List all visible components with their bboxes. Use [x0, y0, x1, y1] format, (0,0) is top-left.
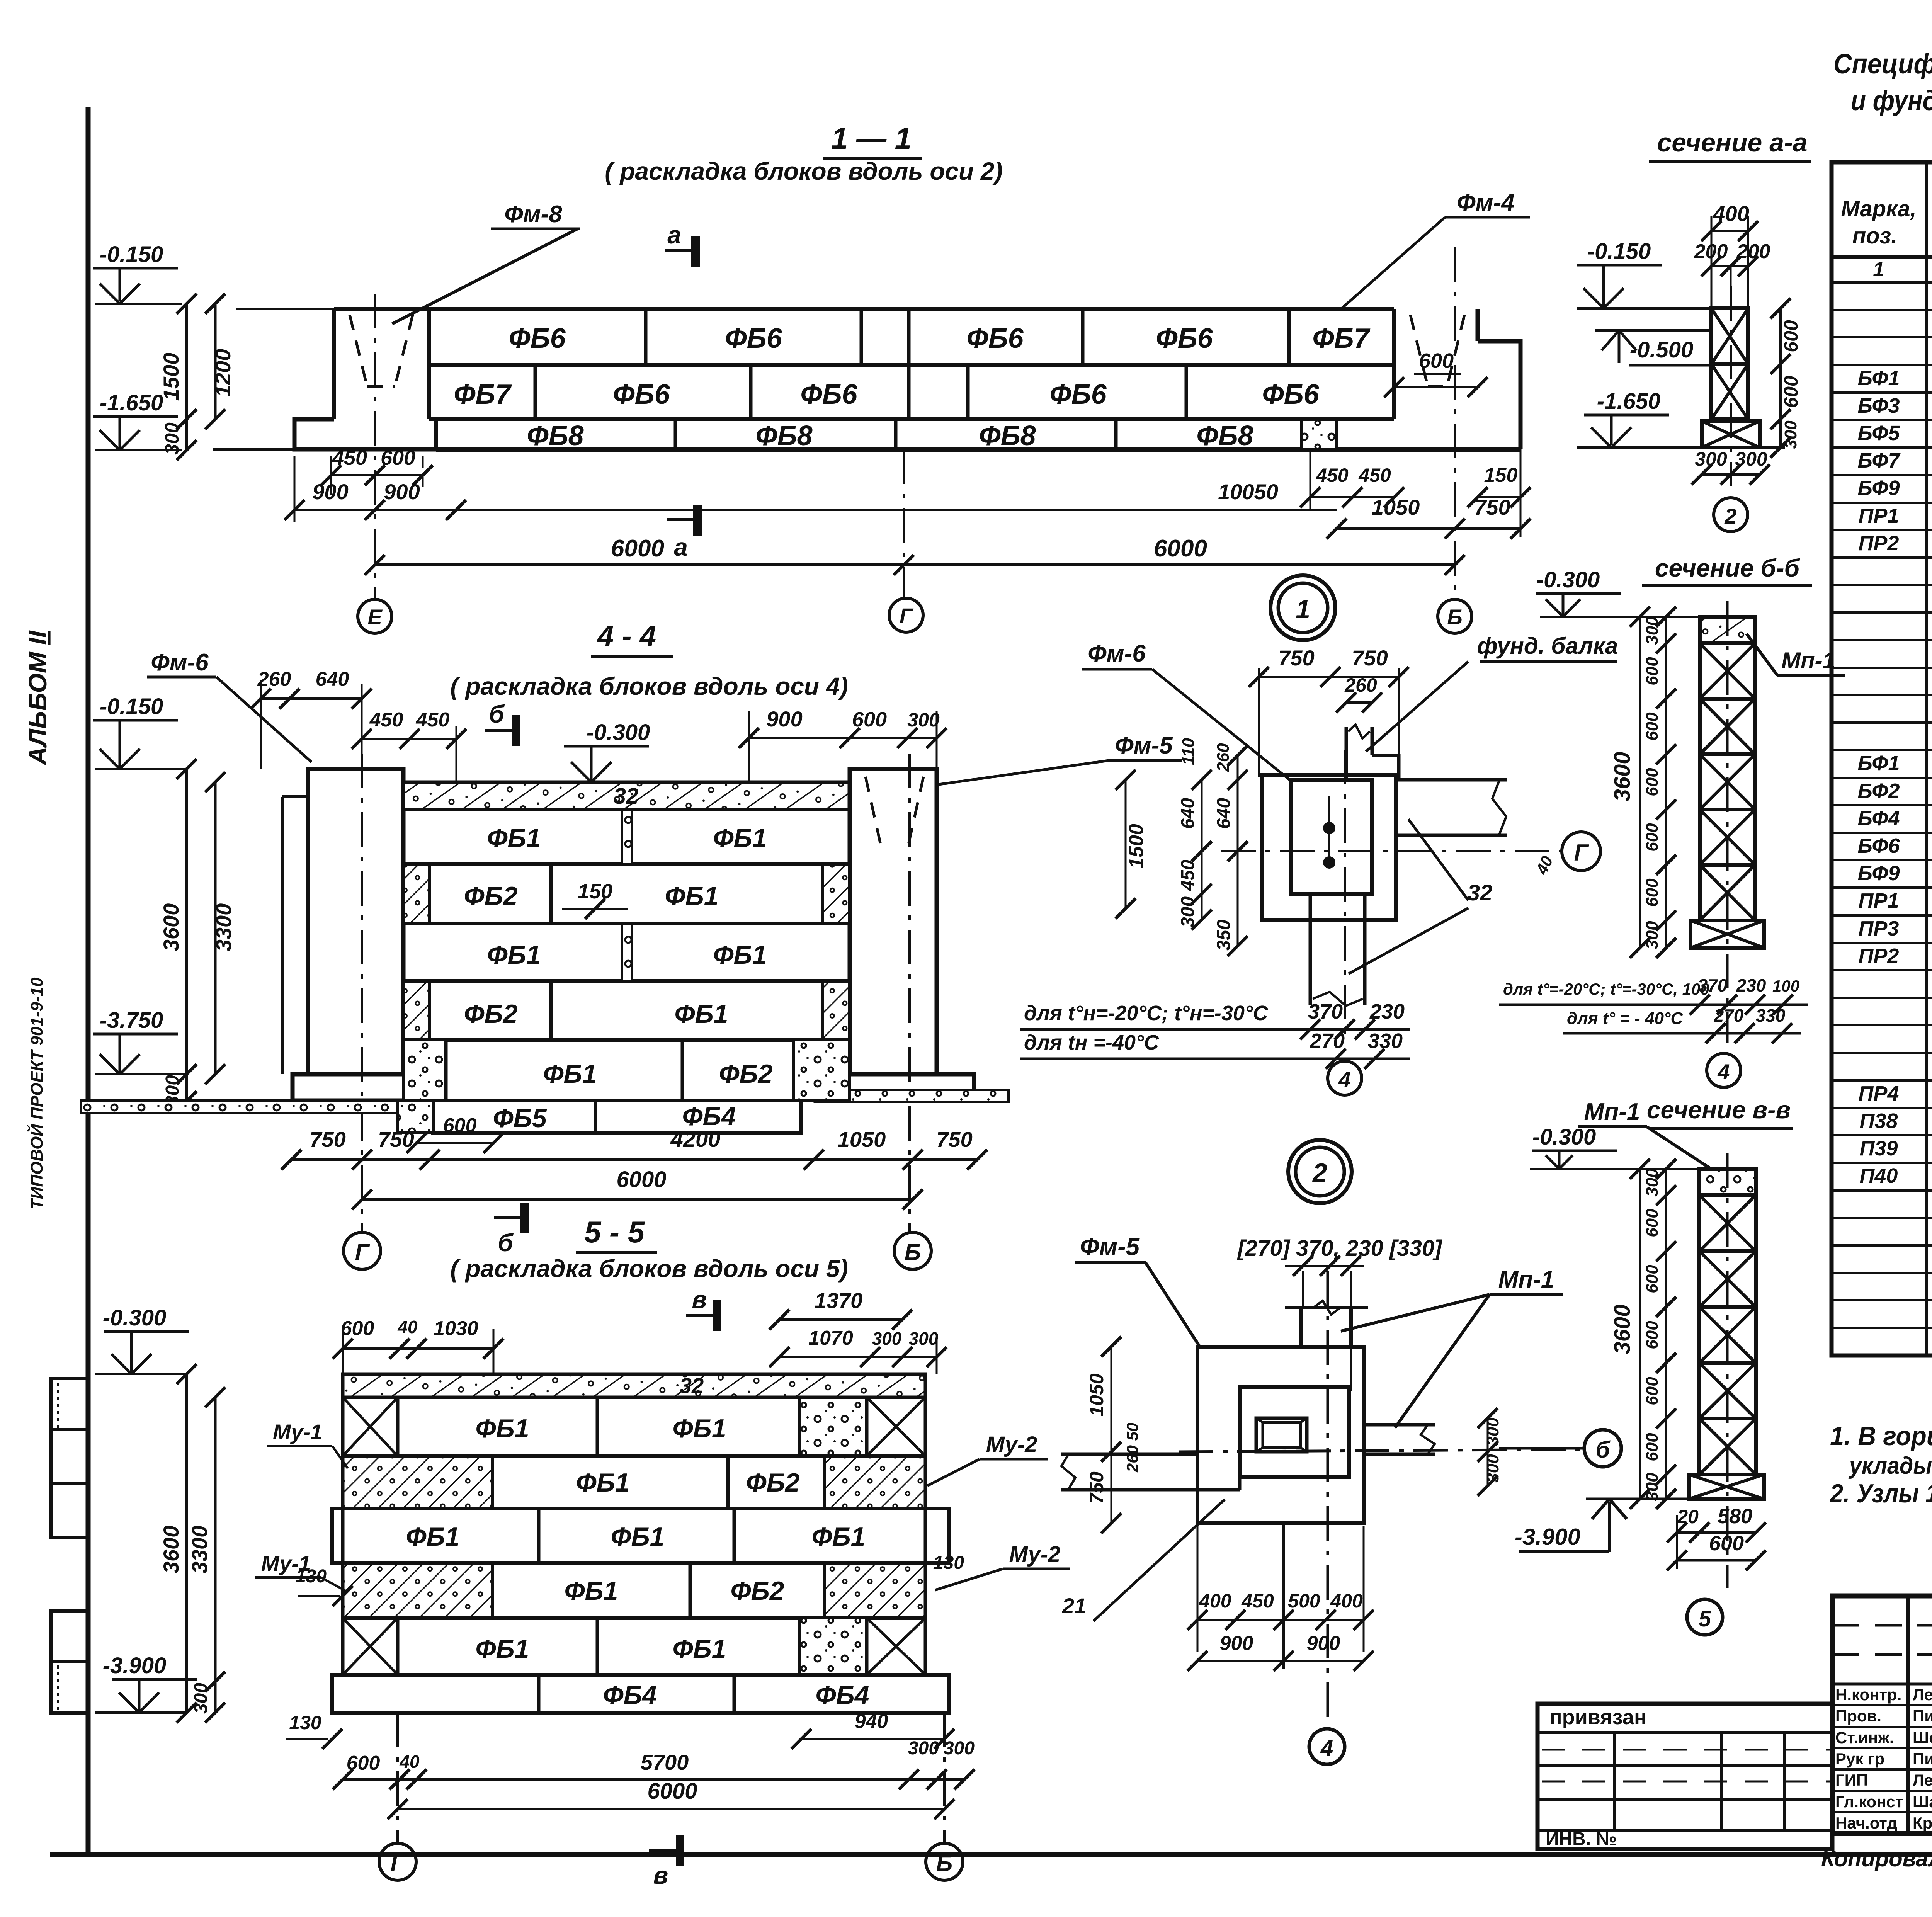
sheet frame bottom border [50, 1852, 1932, 1857]
svg-text:ФБ6: ФБ6 [1156, 323, 1213, 354]
svg-text:270: 270 [1310, 1029, 1345, 1053]
section mark a top [665, 249, 696, 252]
svg-text:1070: 1070 [808, 1327, 853, 1349]
uzel1 axis horizontal [1221, 850, 1561, 852]
svg-text:АЛЬБОМ II: АЛЬБОМ II [23, 630, 52, 766]
uzel1 axis circle G [1562, 832, 1600, 871]
left pilaster footing [294, 419, 436, 449]
section 1-1 row3 FB8 blocks [436, 447, 1520, 452]
svg-text:Б: Б [905, 1239, 921, 1265]
svg-text:640: 640 [316, 668, 349, 691]
svg-text:б: б [498, 1229, 514, 1257]
svg-text:640: 640 [1178, 798, 1198, 829]
svg-text:ГИП: ГИП [1835, 1771, 1868, 1789]
svg-text:БФ2: БФ2 [1857, 779, 1900, 803]
4-4 left pilaster back edge [281, 797, 284, 1074]
svg-text:ФБ1: ФБ1 [406, 1522, 459, 1551]
v-v axis circle b [1584, 1430, 1621, 1467]
svg-text:370: 370 [1698, 975, 1728, 995]
svg-text:260: 260 [1214, 743, 1233, 772]
svg-text:4: 4 [1717, 1060, 1730, 1084]
svg-text:600: 600 [1643, 768, 1662, 796]
leader Mp-1 v-v [1647, 1127, 1719, 1174]
svg-text:1050: 1050 [1086, 1373, 1107, 1416]
svg-text:50: 50 [1123, 1423, 1141, 1441]
svg-text:1500: 1500 [1125, 824, 1148, 869]
svg-text:ФБ1: ФБ1 [475, 1414, 529, 1443]
svg-text:поз.: поз. [1852, 223, 1898, 248]
svg-text:2: 2 [1312, 1158, 1327, 1187]
svg-text:750: 750 [1352, 646, 1388, 670]
svg-text:300: 300 [1781, 420, 1800, 449]
svg-text:150: 150 [1484, 464, 1518, 486]
svg-text:1 — 1: 1 — 1 [831, 121, 912, 155]
svg-text:Г: Г [391, 1850, 406, 1876]
svg-text:32: 32 [614, 784, 639, 809]
svg-text:привязан: привязан [1549, 1706, 1647, 1729]
svg-text:100: 100 [1772, 977, 1799, 995]
svg-text:750: 750 [310, 1127, 345, 1152]
privyazan box rows [1537, 1764, 1832, 1767]
4-4 row3 FB1 blocks [403, 979, 850, 983]
svg-text:сечение а-а: сечение а-а [1657, 128, 1807, 157]
svg-text:600: 600 [1643, 657, 1662, 685]
axis B circle section 1-1 [1438, 599, 1472, 633]
svg-text:Му-1: Му-1 [273, 1420, 322, 1444]
svg-text:ФБ1: ФБ1 [672, 1414, 726, 1443]
svg-text:450: 450 [369, 709, 403, 731]
svg-text:ФБ1: ФБ1 [811, 1522, 865, 1551]
section mark a bottom [667, 518, 697, 521]
svg-text:укладывать сетки 150/250/6/4 ш: укладывать сетки 150/250/6/4 шириной 550… [1848, 1453, 1932, 1479]
svg-text:БФ3: БФ3 [1857, 394, 1900, 417]
svg-text:ИНВ. №: ИНВ. № [1546, 1829, 1617, 1849]
svg-text:750: 750 [1474, 495, 1510, 519]
svg-text:ФБ8: ФБ8 [755, 420, 812, 451]
svg-text:Б: Б [1447, 605, 1463, 629]
svg-text:3600: 3600 [1610, 752, 1635, 801]
row2 block joints [534, 365, 537, 419]
4-4 row4 [403, 1038, 850, 1042]
svg-text:600: 600 [1643, 823, 1662, 852]
svg-text:450: 450 [332, 446, 367, 469]
svg-text:П40: П40 [1860, 1164, 1898, 1187]
svg-text:Шапиро: Шапиро [1913, 1793, 1932, 1811]
axis B line 4-4 [908, 754, 911, 1232]
svg-text:300: 300 [1643, 921, 1662, 949]
svg-text:-3.750: -3.750 [100, 1008, 163, 1033]
svg-text:для t°н=-20°C; t°н=-30°C: для t°н=-20°C; t°н=-30°C [1024, 1002, 1268, 1025]
svg-text:БФ9: БФ9 [1857, 862, 1900, 885]
svg-text:для t°=-20°C; t°=-30°C, 100: для t°=-20°C; t°=-30°C, 100 [1503, 980, 1709, 998]
svg-text:110: 110 [1179, 738, 1198, 765]
title block signature columns [1906, 1596, 1910, 1834]
4-4 left pilaster [308, 769, 403, 1074]
svg-text:( раскладка блоков вдоль оси 4: ( раскладка блоков вдоль оси 4) [450, 672, 848, 700]
svg-text:450: 450 [1241, 1590, 1274, 1612]
svg-text:БФ6: БФ6 [1857, 834, 1900, 857]
svg-text:-0.300: -0.300 [1536, 567, 1600, 592]
svg-text:БФ4: БФ4 [1857, 807, 1900, 830]
svg-text:для tн =-40°C: для tн =-40°C [1024, 1031, 1160, 1054]
svg-text:фунд. балка: фунд. балка [1477, 633, 1618, 659]
privyazan box columns [1613, 1733, 1616, 1831]
svg-text:ФБ1: ФБ1 [487, 823, 541, 853]
v-v dim 3600 [1639, 1169, 1641, 1499]
svg-text:сечение в-в: сечение в-в [1647, 1096, 1791, 1124]
spec table header row line [1832, 255, 1932, 259]
v-v X blocks [1699, 1195, 1756, 1251]
svg-text:для t° = - 40°C: для t° = - 40°C [1567, 1009, 1684, 1028]
row1 block joints [644, 309, 648, 365]
svg-text:600: 600 [1643, 878, 1662, 907]
margin inventory box upper [51, 1379, 88, 1537]
svg-text:ФБ4: ФБ4 [603, 1681, 656, 1710]
privyazan box [1537, 1704, 1832, 1849]
section mark b top [485, 729, 516, 732]
svg-text:150: 150 [578, 880, 612, 903]
svg-text:ФБ4: ФБ4 [815, 1681, 869, 1710]
svg-text:ФБ6: ФБ6 [966, 323, 1024, 354]
b-b column top hatched block Mp-1 [1700, 617, 1755, 643]
svg-text:900: 900 [1220, 1632, 1253, 1655]
uzel1 fund beam vertical [1345, 727, 1348, 780]
svg-text:350: 350 [1214, 920, 1234, 951]
svg-text:ФБ6: ФБ6 [613, 379, 670, 410]
svg-text:260: 260 [1123, 1445, 1141, 1473]
uzel1 inner rect [1291, 780, 1372, 894]
svg-text:900: 900 [1307, 1632, 1340, 1655]
svg-text:3600: 3600 [1610, 1304, 1635, 1354]
b-b small dims column [1665, 617, 1667, 948]
svg-text:-0.300: -0.300 [587, 720, 650, 745]
vertical dim 1500/300 section 1-1 [185, 304, 188, 450]
svg-text:Н.контр.: Н.контр. [1835, 1686, 1901, 1704]
svg-text:400: 400 [1330, 1590, 1363, 1612]
svg-text:4200: 4200 [670, 1127, 720, 1152]
svg-text:-0.150: -0.150 [1587, 239, 1651, 264]
4-4 right pilaster [850, 769, 937, 1074]
svg-text:П39: П39 [1860, 1137, 1898, 1160]
uzel1 node circle 4 [1328, 1061, 1362, 1095]
svg-text:600: 600 [1780, 376, 1802, 408]
svg-text:450: 450 [1178, 860, 1198, 891]
leader Fm-4 [1341, 217, 1445, 309]
svg-text:130: 130 [933, 1553, 964, 1573]
svg-text:600: 600 [1643, 1209, 1662, 1237]
uzel1 anchor dots [1323, 822, 1335, 834]
axis E line [374, 294, 376, 599]
leader Fm-6 to pilaster [216, 677, 311, 762]
section 1-1 wall top line [236, 308, 334, 310]
svg-text:600: 600 [443, 1114, 477, 1137]
svg-text:ФБ2: ФБ2 [464, 881, 517, 911]
axis E circle [358, 599, 392, 633]
svg-text:Е: Е [367, 605, 383, 629]
svg-text:ФБ6: ФБ6 [1049, 379, 1107, 410]
svg-text:ФБ1: ФБ1 [674, 999, 728, 1029]
svg-text:Г: Г [900, 604, 914, 628]
4-4 slab hatched band 32 [403, 782, 850, 810]
svg-text:300: 300 [908, 1738, 939, 1759]
svg-text:260: 260 [1344, 674, 1377, 696]
svg-text:600: 600 [341, 1317, 374, 1340]
4-4 row2 [403, 922, 850, 925]
svg-text:2. Узлы 1,2 замаркированы: 2. Узлы 1,2 замаркированы на листе 3. [1829, 1479, 1932, 1508]
vertical dims 3600 3300 section 5-5 [185, 1374, 188, 1713]
svg-text:-3.900: -3.900 [1515, 1524, 1580, 1550]
svg-text:ФБ1: ФБ1 [543, 1059, 597, 1089]
svg-text:-0.300: -0.300 [1532, 1124, 1596, 1150]
svg-text:Гл.конст: Гл.конст [1835, 1793, 1903, 1811]
svg-text:ФБ1: ФБ1 [665, 881, 718, 911]
svg-text:ПР2: ПР2 [1859, 532, 1899, 555]
uzel1 pier below [1309, 894, 1312, 1005]
svg-text:Пров.: Пров. [1835, 1707, 1881, 1725]
svg-text:ФБ6: ФБ6 [509, 323, 566, 354]
uzel2 axis vertical [1327, 1271, 1329, 1723]
level -0.500 a-a [1595, 329, 1710, 332]
uzel2 right dims 300 300 [1487, 1418, 1489, 1486]
svg-text:32: 32 [680, 1373, 704, 1398]
svg-text:ПР1: ПР1 [1859, 504, 1899, 527]
section mark b bottom [494, 1216, 525, 1219]
svg-text:300: 300 [1643, 616, 1662, 645]
v-v axis [1726, 1153, 1729, 1588]
svg-text:Письман: Письман [1913, 1707, 1932, 1725]
svg-text:ПР3: ПР3 [1859, 917, 1899, 940]
svg-text:1: 1 [1873, 258, 1884, 281]
4-4 ground strip right [815, 1090, 1009, 1102]
uzel1 axis vertical [1344, 750, 1346, 1043]
uzel2 beam right [1364, 1423, 1435, 1427]
svg-text:ФБ1: ФБ1 [672, 1634, 726, 1664]
svg-text:600: 600 [1643, 1433, 1662, 1461]
svg-text:300: 300 [1483, 1417, 1502, 1446]
svg-text:-0.150: -0.150 [100, 694, 163, 719]
svg-text:330: 330 [1756, 1005, 1786, 1026]
svg-text:750: 750 [1278, 646, 1314, 670]
svg-text:130: 130 [289, 1712, 321, 1733]
spec table row lines [1832, 309, 1932, 311]
axis B circle 5-5 [943, 1713, 946, 1843]
left pilaster dashed taper [350, 315, 367, 386]
svg-text:5 - 5: 5 - 5 [584, 1215, 645, 1249]
uzel2 column cross-section [1256, 1418, 1307, 1452]
svg-text:40: 40 [397, 1317, 418, 1337]
svg-text:750: 750 [1086, 1471, 1107, 1504]
svg-text:20: 20 [1677, 1506, 1699, 1527]
a-a right dim 600 600 300 [1779, 308, 1782, 447]
svg-text:ФБ7: ФБ7 [1312, 323, 1370, 354]
a-a column upper X block [1711, 308, 1748, 364]
svg-text:900: 900 [766, 707, 802, 731]
svg-text:а: а [667, 221, 681, 249]
svg-text:ФБ2: ФБ2 [464, 999, 517, 1029]
4-4 row1 FB1 blocks [403, 862, 850, 866]
svg-text:450: 450 [1358, 464, 1391, 486]
svg-text:ФБ1: ФБ1 [564, 1576, 618, 1606]
svg-text:ФБ2: ФБ2 [719, 1059, 772, 1089]
svg-text:300: 300 [1483, 1454, 1502, 1483]
4-4 right footing [815, 1074, 974, 1101]
leader Fm-8 [392, 229, 578, 324]
4-4 left footing [293, 1074, 428, 1101]
svg-text:ФБ1: ФБ1 [576, 1468, 629, 1497]
svg-text:Мп-1: Мп-1 [1584, 1099, 1640, 1125]
b-b node circle 4 [1707, 1053, 1741, 1087]
svg-text:300: 300 [1643, 1473, 1662, 1501]
4-4 row5 bottom blocks [446, 1099, 815, 1102]
4-4 row6 FB5 FB4 [433, 1101, 801, 1133]
svg-text:3600: 3600 [159, 1526, 183, 1574]
svg-text:300: 300 [161, 422, 183, 455]
svg-text:Фм-6: Фм-6 [1088, 640, 1146, 667]
svg-text:300: 300 [1643, 1168, 1662, 1197]
svg-text:600: 600 [1643, 1377, 1662, 1405]
4-4 ground strip left [81, 1101, 414, 1113]
svg-text:1030: 1030 [434, 1317, 478, 1340]
right pilaster dashed taper 4-4 [866, 777, 881, 846]
uzel2 left dim stack [1111, 1347, 1112, 1523]
svg-text:Шевченко: Шевченко [1913, 1728, 1932, 1747]
svg-text:а: а [674, 533, 688, 561]
svg-text:600: 600 [1643, 1265, 1662, 1293]
svg-text:Марка,: Марка, [1841, 196, 1916, 221]
svg-text:( раскладка блоков вдоль оси 2: ( раскладка блоков вдоль оси 2) [605, 157, 1003, 185]
svg-text:Фм-8: Фм-8 [504, 201, 562, 228]
svg-text:750: 750 [936, 1127, 972, 1152]
svg-text:ФБ6: ФБ6 [800, 379, 857, 410]
svg-text:370: 370 [1308, 1000, 1343, 1023]
svg-text:б: б [1595, 1437, 1611, 1463]
svg-text:Мп-1: Мп-1 [1781, 648, 1835, 674]
leader Fm-6 uzel1 [1152, 669, 1291, 781]
title block top rows left [1832, 1624, 1932, 1627]
svg-text:300: 300 [1178, 896, 1198, 927]
svg-text:сечение б-б: сечение б-б [1655, 554, 1801, 582]
spec table outer border [1832, 162, 1932, 1356]
svg-text:Г: Г [1574, 840, 1590, 866]
svg-text:130: 130 [296, 1566, 327, 1587]
svg-text:300: 300 [944, 1738, 975, 1759]
svg-text:ФБ2: ФБ2 [730, 1576, 784, 1606]
axis B circle 4-4 [894, 1232, 931, 1269]
svg-text:940: 940 [855, 1710, 888, 1733]
title block outer [1832, 1596, 1932, 1834]
svg-text:Рук гр: Рук гр [1835, 1750, 1884, 1768]
svg-text:ФБ8: ФБ8 [979, 420, 1036, 451]
uzel1 left dim stack [1201, 780, 1203, 920]
svg-text:ПР4: ПР4 [1859, 1082, 1899, 1105]
svg-text:-1.650: -1.650 [1597, 389, 1660, 414]
svg-text:и фундаментных балок (оконча: и фундаментных балок (окончание) [1851, 85, 1932, 116]
5-5 row3 wide [332, 1509, 949, 1563]
svg-text:6000: 6000 [616, 1167, 666, 1192]
leader Fm-5 uzel2 [1146, 1263, 1200, 1347]
svg-text:ПР1: ПР1 [1859, 889, 1899, 912]
svg-text:450: 450 [1316, 464, 1349, 486]
sheet frame left border [86, 107, 91, 1854]
svg-text:1. В горизонтальные швы фунд: 1. В горизонтальные швы фундаментных бло… [1830, 1421, 1932, 1451]
vertical dims 3600 3300 300 of 4-4 [185, 769, 188, 1101]
5-5 row6 FB4 [332, 1675, 949, 1713]
svg-text:Му-2: Му-2 [986, 1432, 1037, 1457]
uzel2 node circle 4 [1309, 1729, 1345, 1764]
svg-text:Г: Г [355, 1239, 371, 1265]
section mark v bottom [649, 1849, 680, 1852]
a-a axis circle 2 [1714, 498, 1748, 532]
svg-text:ФБ6: ФБ6 [1262, 379, 1319, 410]
v-v node circle 5 [1687, 1599, 1723, 1635]
svg-text:4: 4 [1338, 1067, 1350, 1092]
right pilaster step down right side [1478, 341, 1520, 449]
svg-text:750: 750 [378, 1127, 414, 1152]
svg-text:П38: П38 [1860, 1109, 1898, 1133]
uzel1 horizontal beam right [1396, 778, 1507, 782]
node circle 2 double [1288, 1140, 1352, 1203]
svg-text:Фм-5: Фм-5 [1115, 732, 1173, 759]
b-b axis [1726, 601, 1729, 1043]
5-5 left vertical edges [341, 1397, 345, 1618]
section 1-1 left pilaster Fm-8 [332, 309, 336, 419]
margin inventory box lower [51, 1611, 88, 1713]
svg-text:450: 450 [416, 709, 450, 731]
svg-text:260: 260 [257, 668, 291, 691]
b-b X blocks [1700, 643, 1755, 699]
svg-text:600: 600 [852, 708, 887, 731]
node circle 1 double [1270, 575, 1335, 640]
a-a ground line [1577, 446, 1785, 449]
svg-text:300: 300 [909, 1328, 939, 1349]
svg-text:500: 500 [1288, 1590, 1320, 1612]
svg-text:900: 900 [312, 480, 348, 504]
svg-text:б: б [489, 700, 505, 728]
svg-text:Левина: Левина [1913, 1771, 1932, 1789]
svg-text:6000: 6000 [611, 535, 664, 562]
uzel2 axis horizontal [1179, 1449, 1582, 1452]
svg-text:1200: 1200 [211, 349, 235, 397]
svg-text:Ст.инж.: Ст.инж. [1835, 1728, 1894, 1747]
svg-text:400: 400 [1713, 201, 1749, 226]
svg-text:в: в [653, 1861, 668, 1889]
5-5 row4 [343, 1616, 925, 1620]
title block signature rows [1832, 1704, 1932, 1706]
leader fund balka [1366, 662, 1468, 752]
section 1-1 row1 bottom line [429, 363, 1394, 367]
svg-text:-3.900: -3.900 [103, 1653, 166, 1678]
spec table column lines [1925, 162, 1928, 1356]
svg-text:Левина: Левина [1913, 1686, 1932, 1704]
uzel2 beam left [1061, 1453, 1197, 1456]
svg-text:300: 300 [907, 709, 940, 731]
svg-text:600: 600 [1643, 1321, 1662, 1349]
svg-text:-1.650: -1.650 [100, 390, 163, 415]
svg-text:1: 1 [1296, 595, 1310, 624]
b-b pedestal [1690, 920, 1764, 948]
svg-text:230: 230 [1736, 975, 1766, 995]
svg-text:3600: 3600 [159, 903, 183, 952]
svg-text:ТИПОВОЙ ПРОЕКТ 901-9-10: ТИПОВОЙ ПРОЕКТ 901-9-10 [27, 977, 46, 1209]
svg-text:ФБ1: ФБ1 [611, 1522, 664, 1551]
svg-text:ФБ8: ФБ8 [1196, 420, 1253, 451]
svg-text:1370: 1370 [815, 1288, 863, 1313]
v-v column top concrete block [1699, 1169, 1756, 1195]
svg-text:-0.150: -0.150 [100, 242, 163, 267]
svg-text:1050: 1050 [1372, 495, 1420, 519]
a-a pedestal X block [1702, 421, 1760, 447]
svg-text:Б: Б [936, 1850, 952, 1876]
